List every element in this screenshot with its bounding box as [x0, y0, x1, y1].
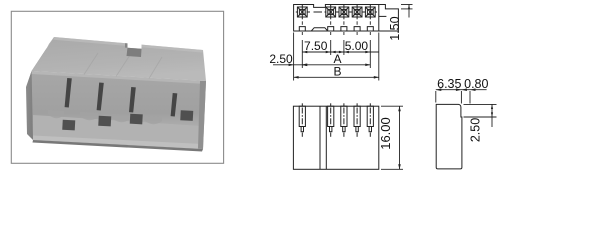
connector photo: notch shadow below: [127, 48, 142, 57]
extension line bottom: [381, 168, 403, 170]
connector photo: slot 1: [65, 78, 72, 108]
connector photo: bottom edge highlight: [33, 136, 203, 150]
contact centerlines below body (dash): [302, 21, 370, 35]
horizontal centerline through contacts: [296, 11, 298, 13]
1.50 dim leader: [408, 5, 410, 18]
pitch dimension line row: [302, 51, 379, 53]
connector photo: hole 4: [180, 110, 193, 121]
contact square 2: [326, 5, 336, 19]
connector photo: cavity scallop 3: [112, 114, 130, 122]
extension top edge level: [401, 4, 413, 6]
top view body outline: [294, 5, 399, 32]
arrowheads A: [302, 64, 307, 67]
connector photo: cavity scallop 4: [144, 116, 162, 124]
16.00 dimension: [381, 106, 403, 169]
top view bottom polarization bump: [311, 28, 327, 31]
contact square 1: [297, 5, 307, 19]
extension line contact 1: [301, 40, 303, 68]
connector photo: left end face: [26, 71, 34, 140]
arrowheads 2.50 (outside): [289, 64, 294, 67]
front contact 2: [328, 103, 334, 137]
connector photo: top rear rim highlight left of notch: [54, 37, 128, 46]
top view contact squares with X: [296, 5, 377, 19]
extension line contact 3: [343, 40, 345, 55]
arrowheads pitch row: [302, 51, 307, 54]
extension line body right: [378, 33, 380, 81]
front contact 3: [341, 103, 347, 137]
1.50 arrowhead: [408, 5, 410, 10]
extension line left: [435, 91, 437, 103]
connector photo: slot 2: [97, 83, 104, 111]
front contact 5: [367, 103, 373, 137]
connector photo: cavity scallop 1: [48, 110, 64, 118]
2.50 dimension right of side view: [464, 104, 497, 127]
contact square 5: [365, 5, 375, 19]
1.50 dimension right of top view: [401, 5, 413, 18]
extension line step level: [464, 116, 497, 118]
connector photo: slot 3: [129, 87, 136, 113]
connector photo: right end shading: [198, 81, 206, 149]
connector photo: hole 3: [130, 114, 143, 125]
connector photo: top face with notch indent: [32, 37, 206, 81]
contact square 4: [352, 5, 362, 19]
photo frame: [11, 11, 223, 163]
2.50 leader line: [273, 64, 307, 66]
svg-text:1.50: 1.50: [388, 16, 402, 40]
connector photo: slot 4: [171, 93, 178, 117]
connector photo: bottom light band: [33, 115, 203, 149]
connector photo: bottom edge shadow: [33, 140, 204, 152]
svg-text:7.50: 7.50: [304, 39, 328, 53]
connector photo: notch left inner wall: [125, 43, 128, 48]
connector photo: top face partition hints: [84, 53, 162, 79]
svg-text:B: B: [333, 65, 341, 79]
top view tab under contact 3: [341, 27, 347, 31]
arrowheads B: [294, 76, 299, 79]
6.35 / 0.80 dimensions above side view: [436, 90, 487, 104]
connector photo: top front edge highlight: [32, 71, 206, 84]
svg-text:0.80: 0.80: [464, 77, 488, 91]
svg-text:2.50: 2.50: [469, 118, 483, 142]
extension line top: [381, 105, 403, 107]
connector photo: hole 1: [62, 120, 75, 131]
6.35/0.80 dimension line: [436, 89, 487, 91]
A dimension line: [302, 64, 370, 66]
svg-text:2.50: 2.50: [269, 52, 293, 66]
top view inner wall right: [378, 5, 380, 32]
contact square 3: [339, 5, 349, 19]
front contact 1: [299, 103, 305, 137]
extension line contact 2: [330, 40, 332, 55]
front view wall line 2: [325, 106, 327, 169]
front view wall line 1: [319, 106, 321, 169]
extension step level: [401, 8, 413, 10]
connector photo: hole 2: [98, 116, 111, 127]
svg-text:5.00: 5.00: [345, 39, 369, 53]
top view tab under contact 5: [367, 27, 373, 31]
16.00 dimension line: [399, 106, 401, 169]
extension line body left: [293, 33, 295, 81]
top view tab under contact 4: [354, 27, 360, 31]
front contact 4: [354, 103, 360, 137]
connector photo: cavity scallop 2: [80, 112, 98, 120]
B dimension line: [294, 76, 379, 78]
extension line top level: [464, 103, 497, 105]
top view tab under contact 1: [299, 27, 305, 31]
connector photo: top rear rim highlight right of notch: [142, 45, 204, 53]
front view body outline: [293, 106, 378, 169]
extension line contact 5: [369, 40, 371, 68]
extension line middle (shared): [460, 91, 462, 104]
connector photo: left end face upper wedge: [28, 37, 54, 82]
svg-text:16.00: 16.00: [378, 117, 393, 150]
front view contact bars: [299, 103, 373, 137]
2.50 dimension line: [491, 104, 493, 127]
top view tab under contact 2: [328, 27, 334, 31]
side view outline: [436, 104, 462, 168]
top view right-end hidden edge: [379, 15, 387, 17]
connector photo: front face: [32, 71, 206, 149]
extension line right: [469, 91, 471, 104]
svg-text:6.35: 6.35: [437, 77, 461, 91]
